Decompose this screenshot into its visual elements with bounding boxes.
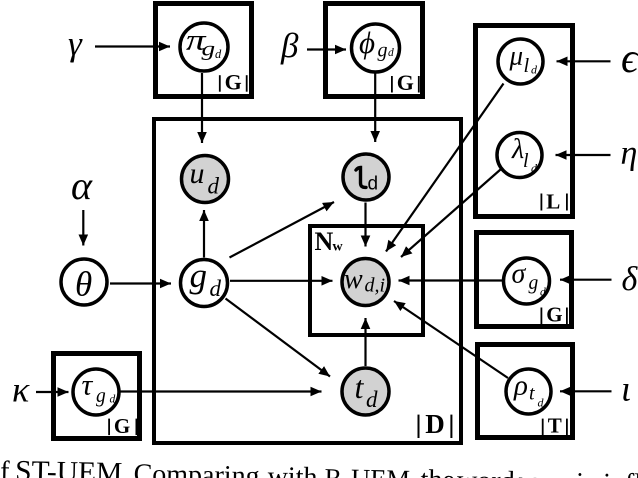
svg-text:ϵ: ϵ	[621, 36, 638, 82]
svg-text:is: is	[576, 468, 595, 478]
svg-text:ι: ι	[621, 369, 631, 409]
svg-text:infl: infl	[603, 468, 638, 478]
svg-text:l: l	[524, 55, 530, 77]
svg-text:ST-UEM.: ST-UEM.	[15, 455, 130, 478]
svg-text:d: d	[110, 394, 116, 406]
svg-text:ρ: ρ	[513, 370, 528, 402]
svg-text:t: t	[355, 369, 365, 405]
svg-text:word: word	[457, 465, 515, 478]
svg-text:d,i: d,i	[365, 275, 386, 297]
svg-text:d: d	[210, 276, 222, 301]
svg-text:G: G	[114, 414, 130, 438]
svg-text:γ: γ	[68, 24, 83, 63]
svg-text:g: g	[378, 40, 388, 62]
svg-text:g: g	[96, 386, 106, 407]
svg-text:g: g	[190, 256, 208, 295]
svg-text:w: w	[333, 240, 344, 255]
svg-text:d: d	[531, 161, 538, 175]
svg-text:d: d	[368, 174, 379, 195]
svg-text:Comparing: Comparing	[133, 459, 260, 478]
svg-text:d: d	[531, 63, 538, 77]
svg-text:d: d	[388, 47, 394, 59]
svg-text:ϕ: ϕ	[359, 25, 375, 60]
svg-text:g: g	[202, 37, 216, 60]
svg-text:with: with	[267, 461, 317, 478]
svg-text:g: g	[529, 273, 539, 294]
svg-text:N: N	[315, 227, 334, 256]
svg-text:T: T	[548, 414, 562, 438]
svg-text:G: G	[397, 70, 414, 95]
svg-text:δ: δ	[622, 261, 638, 298]
svg-text:d: d	[208, 174, 220, 199]
svg-text:α: α	[71, 163, 93, 208]
svg-text:D: D	[425, 409, 445, 439]
svg-text:f: f	[0, 456, 10, 478]
svg-text:t: t	[529, 383, 535, 405]
svg-text:d: d	[538, 396, 545, 410]
svg-text:d: d	[215, 47, 222, 61]
svg-text:θ: θ	[75, 265, 92, 304]
svg-text:κ: κ	[12, 370, 30, 410]
svg-text:G: G	[546, 303, 562, 327]
svg-text:η: η	[621, 135, 638, 172]
svg-text:d: d	[540, 287, 546, 299]
svg-text:the: the	[420, 464, 455, 478]
svg-text:σ: σ	[512, 259, 527, 290]
svg-text:l: l	[523, 150, 529, 172]
svg-text:μ: μ	[509, 41, 524, 71]
svg-text:G: G	[225, 69, 242, 94]
svg-text:τ: τ	[82, 369, 94, 402]
svg-text:d: d	[366, 387, 378, 412]
svg-text:w: w	[518, 466, 538, 478]
svg-text:w: w	[344, 264, 363, 295]
svg-text:β: β	[280, 26, 299, 65]
svg-text:u: u	[190, 157, 205, 190]
svg-text:L: L	[546, 190, 560, 214]
svg-text:R-UEM,: R-UEM,	[324, 463, 417, 478]
